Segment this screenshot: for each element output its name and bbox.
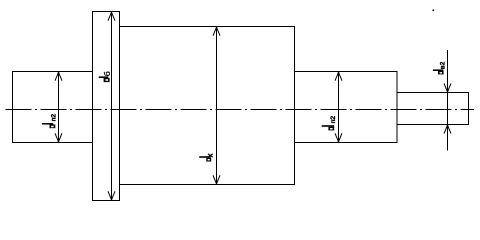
dimension line dп2 right	[338, 72, 340, 142]
dimension line dк (wheel seat)	[216, 27, 218, 184]
label dк (wheel seat)	[199, 154, 213, 162]
dimension line dв2 (shaft end, outside arrows)	[447, 50, 449, 151]
arrowheads: left dп2 top/bottom	[55, 72, 62, 80]
shaft section 1 (left journal, dп2)	[13, 72, 93, 143]
centerline (dash-dot axis)	[6, 109, 474, 111]
arrowheads: flange dб top/bottom	[108, 12, 115, 20]
label dв2 (shaft end)	[433, 61, 446, 74]
label dп2 (right journal)	[322, 115, 337, 130]
arrowheads: right dп2 top/bottom	[335, 72, 342, 80]
svg-text:б: б	[102, 71, 112, 76]
svg-text:п2: п2	[330, 115, 337, 123]
shaft section 4 (right journal, dп2)	[295, 72, 398, 143]
arrowheads: dк top/bottom	[213, 27, 220, 35]
label dп2 (left journal)	[42, 113, 58, 128]
arrowheads: dв2 outside pair	[444, 83, 451, 91]
stray speck top right	[433, 10, 435, 12]
svg-text:в2: в2	[439, 61, 446, 69]
flange / collar (dб)	[93, 12, 120, 201]
svg-text:п2: п2	[51, 113, 58, 121]
dimension line dп2 left	[58, 72, 60, 142]
shaft end section (dв2)	[397, 93, 469, 125]
dimension line dб (flange)	[111, 12, 113, 200]
label dб (flange)	[99, 71, 112, 82]
wheel seat section (dк)	[120, 27, 295, 185]
